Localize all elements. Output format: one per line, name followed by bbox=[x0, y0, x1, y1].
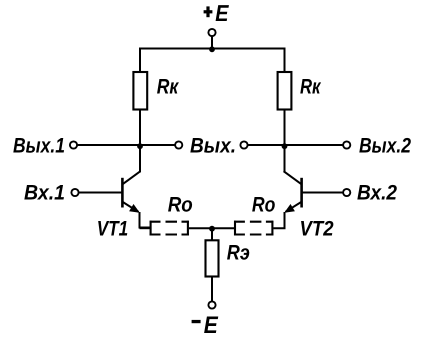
wire: Re to -E terminal bbox=[211, 276, 213, 301]
wire: Ro left to center node bbox=[189, 227, 212, 229]
svg-text:Вых.: Вых. bbox=[190, 134, 236, 157]
svg-text:Rэ: Rэ bbox=[227, 242, 250, 265]
svg-text:E: E bbox=[204, 312, 219, 339]
power terminal +E bbox=[204, 0, 229, 36]
wire: VT2 base to Vh.2 bbox=[303, 192, 344, 194]
resistor Ro right (dashed) bbox=[234, 221, 273, 236]
wire: Ro right to VT2 emitter bbox=[273, 212, 284, 228]
resistor Rk right bbox=[278, 72, 292, 110]
junction: emitter center node bbox=[209, 226, 215, 232]
svg-text:Вх.2: Вх.2 bbox=[357, 182, 397, 205]
svg-text:Вых.1: Вых.1 bbox=[13, 134, 65, 157]
wire: Rk right to VT2 collector bbox=[284, 109, 286, 172]
terminal Vyh.1 bbox=[13, 134, 77, 157]
svg-text:Ro: Ro bbox=[168, 194, 193, 217]
wire: Vyh.1 to middle output left bbox=[77, 144, 175, 146]
terminal Vyh. (middle) bbox=[175, 134, 248, 157]
junction: top rail node bbox=[209, 46, 215, 52]
resistor Ro left (dashed) bbox=[150, 221, 189, 236]
svg-text:Rк: Rк bbox=[157, 76, 180, 99]
svg-text:Rк: Rк bbox=[300, 76, 322, 99]
svg-text:VT2: VT2 bbox=[300, 218, 334, 241]
wire: Vh.1 to VT1 base bbox=[79, 192, 122, 194]
resistor Rk left bbox=[133, 72, 147, 110]
terminal Vyh.2 bbox=[343, 134, 411, 157]
transistor VT1 bbox=[122, 171, 140, 213]
svg-text:Вых.2: Вых.2 bbox=[359, 134, 411, 157]
wire: middle output right to Vyh.2 bbox=[248, 144, 343, 146]
wire: +E stub bbox=[211, 36, 213, 49]
resistor Re bbox=[206, 240, 219, 276]
svg-text:Вх.1: Вх.1 bbox=[24, 182, 65, 205]
wire: top supply rail bbox=[139, 48, 286, 50]
svg-text:VT1: VT1 bbox=[97, 218, 129, 241]
svg-text:E: E bbox=[215, 0, 229, 26]
terminal Vh.2 bbox=[343, 182, 397, 205]
junction: right collector node bbox=[282, 143, 288, 149]
power terminal -E bbox=[192, 301, 219, 338]
terminal Vh.1 bbox=[24, 182, 79, 205]
wire: center node to Re bbox=[211, 228, 213, 241]
junction: left collector node bbox=[137, 143, 143, 149]
svg-text:Ro: Ro bbox=[252, 194, 276, 217]
wire: center node to Ro right bbox=[212, 227, 235, 229]
transistor VT2 bbox=[284, 171, 302, 213]
wire: VT1 emitter to Ro left bbox=[140, 212, 151, 228]
wire: rail to Rk left bbox=[139, 48, 141, 74]
wire: Rk left to VT1 collector bbox=[139, 109, 141, 172]
wire: rail to Rk right bbox=[284, 48, 286, 74]
